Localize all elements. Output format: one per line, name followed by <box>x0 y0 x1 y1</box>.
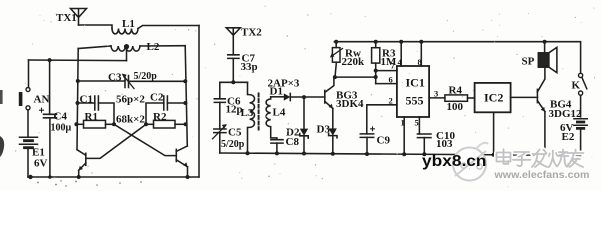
svg-text:3DG12: 3DG12 <box>549 108 583 120</box>
svg-text:L1: L1 <box>122 18 135 30</box>
pushbutton AN <box>19 60 30 110</box>
wire BG3 collector to R3 node <box>334 76 376 78</box>
node antenna coupling junction <box>231 80 235 84</box>
wire E1 to ground rail <box>27 148 29 177</box>
svg-text:C8: C8 <box>286 136 300 148</box>
wire C1 right down to R1 right node <box>98 103 114 124</box>
wire L2 tap down to supply wire <box>126 48 128 61</box>
node L3 bottom on rail <box>246 151 250 155</box>
scan artifact left edge upper <box>0 90 3 104</box>
wire IC1 pin7 <box>376 70 397 72</box>
diode D1 <box>271 93 325 100</box>
inductor L1 <box>112 29 138 34</box>
wire C1 left <box>78 102 95 104</box>
wire L2 right lead <box>140 45 185 47</box>
wire cross coupling R1node to BG2 base <box>114 124 176 155</box>
svg-text:C2: C2 <box>150 92 164 104</box>
wire R1 right <box>106 123 115 125</box>
ground rail receiver <box>220 153 581 155</box>
node pin1 on rail <box>402 152 406 156</box>
svg-text:3DK4: 3DK4 <box>336 98 364 110</box>
wire R2 right <box>175 123 186 125</box>
transistor BG2 <box>176 146 187 177</box>
svg-text:C4: C4 <box>54 111 68 123</box>
node pin4 on Vcc rail <box>399 40 403 44</box>
resistor R4 <box>445 95 468 101</box>
svg-text:68k×2: 68k×2 <box>116 114 145 126</box>
scan artifact left edge lower <box>0 136 4 157</box>
wire cross coupling R2node to BG1 base <box>86 124 146 158</box>
wire TX1 to L1 <box>79 25 113 29</box>
node BG3 collector / Rw junction <box>333 75 337 79</box>
node Rw top on Vcc rail <box>334 40 338 44</box>
node C10 bottom on rail <box>422 152 426 156</box>
inductor L2 <box>111 46 140 51</box>
wire C2 right <box>167 102 185 104</box>
node BG4 emitter on rail <box>543 153 547 157</box>
capacitor C9 <box>360 127 374 154</box>
node SP top on Vcc rail <box>543 40 547 44</box>
node L2 center tap <box>124 44 129 49</box>
svg-text:C3: C3 <box>108 72 122 84</box>
capacitor C4 <box>40 60 57 177</box>
node D2 bottom on rail <box>302 152 306 156</box>
speaker SP <box>538 42 557 73</box>
wire IC2 ground <box>493 112 495 154</box>
node BG1 emitter on rail <box>77 175 81 179</box>
op-amp IC1 555 timer box <box>397 66 429 117</box>
node C9 bottom on rail <box>365 152 369 156</box>
antenna TX2 <box>226 28 240 55</box>
node C4 on ground rail <box>48 175 52 179</box>
svg-text:R1: R1 <box>85 111 98 123</box>
wire L1 to right vertical <box>138 26 199 29</box>
svg-text:3: 3 <box>434 89 438 99</box>
svg-text:5: 5 <box>415 118 419 128</box>
node C8 bottom on rail <box>275 151 279 155</box>
node R2 right <box>184 122 188 126</box>
wire R2 left <box>146 123 154 125</box>
op-amp IC2 box <box>475 83 511 112</box>
resistor R1 <box>84 120 106 128</box>
svg-text:K: K <box>572 80 581 92</box>
svg-text:D3: D3 <box>317 124 331 136</box>
svg-text:103: 103 <box>436 138 453 150</box>
inductor L4 <box>266 97 277 140</box>
antenna TX1 <box>71 9 87 26</box>
node R1 left <box>74 122 78 126</box>
node pin7 junction <box>374 69 378 73</box>
svg-text:TX2: TX2 <box>241 27 262 39</box>
node C2 right <box>183 101 187 105</box>
svg-text:E2: E2 <box>562 131 575 143</box>
wire R1 left <box>76 123 83 125</box>
svg-text:C9: C9 <box>377 135 391 147</box>
transformer core <box>258 94 260 130</box>
switch K <box>579 73 587 117</box>
svg-text:5/20p: 5/20p <box>221 139 245 150</box>
capacitor C2 <box>164 96 168 110</box>
diode D3 <box>329 108 337 153</box>
Vcc rail receiver <box>334 42 580 73</box>
svg-text:www.elecfans.com: www.elecfans.com <box>493 169 589 181</box>
node C1 left <box>76 101 80 105</box>
scan noise speckle <box>15 6 595 188</box>
wire R4 to IC2 <box>468 97 475 99</box>
wire AN to E1 <box>27 110 29 136</box>
svg-text:1: 1 <box>401 118 405 128</box>
svg-text:8: 8 <box>418 57 422 67</box>
wire IC1 pin5 to C10 <box>418 117 420 134</box>
svg-text:L2: L2 <box>147 41 160 53</box>
svg-text:C5: C5 <box>228 127 242 139</box>
node detector junction <box>302 95 306 99</box>
node R3 top on Vcc rail <box>374 40 378 44</box>
svg-text:2: 2 <box>389 96 393 106</box>
wire left vertical (L2 end to BG1 collector) <box>77 49 78 150</box>
wire supply from AN rail to L2 tap <box>29 59 127 62</box>
resistor R3 <box>372 42 380 84</box>
node supply junction to C4 <box>48 58 52 62</box>
svg-text:33p: 33p <box>241 61 258 73</box>
node pin8 on Vcc rail <box>419 40 423 44</box>
wire IC1 pin3 to R4 <box>429 97 445 99</box>
wire IC1 pin1 to ground <box>403 117 405 154</box>
capacitor C10 <box>417 134 431 154</box>
node IC2 ground on rail <box>492 153 496 157</box>
wire L2 left lead <box>78 46 111 49</box>
svg-text:220k: 220k <box>342 56 366 68</box>
capacitor C1 <box>95 96 99 110</box>
wire C2 left down to R2 left node <box>146 103 164 124</box>
wire IC1 pin2 <box>367 104 397 106</box>
node BG2 emitter on rail <box>186 175 190 179</box>
node rail left end <box>28 175 32 179</box>
wire pin2 down to C9 <box>366 105 368 134</box>
potentiometer Rw <box>330 42 343 77</box>
wire C3 right to right vertical <box>129 80 186 82</box>
svg-text:555: 555 <box>406 94 424 108</box>
node Rw horizontal junction <box>374 75 378 79</box>
wire right vertical (L2 end to BG2 collector) <box>185 46 187 146</box>
capacitor C8 <box>271 140 283 154</box>
capacitor C3 (trimmer) <box>122 74 134 89</box>
svg-text:R2: R2 <box>153 111 167 123</box>
diode D2 <box>300 97 308 153</box>
wire tank left down to C6 <box>219 82 221 99</box>
svg-text:R4: R4 <box>449 85 463 97</box>
ground rail transmitter <box>28 176 199 178</box>
inductor L3 <box>248 82 255 153</box>
svg-text:5/20p: 5/20p <box>134 71 158 82</box>
transistor BG1 <box>77 150 86 177</box>
node R2/C2 left junction <box>144 122 148 126</box>
svg-text:100: 100 <box>447 101 464 113</box>
svg-text:AN: AN <box>34 94 50 106</box>
node C3 right on vertical <box>183 79 187 83</box>
capacitor C5 (trimmer) <box>213 124 227 153</box>
wire tank top <box>220 81 248 83</box>
svg-text:L4: L4 <box>273 107 286 119</box>
svg-text:56p×2: 56p×2 <box>116 94 145 106</box>
svg-text:6V: 6V <box>34 158 48 170</box>
svg-text:TX1: TX1 <box>56 12 77 24</box>
node D3 bottom on rail <box>331 152 335 156</box>
svg-text:D1: D1 <box>270 86 283 98</box>
transistor BG4 <box>537 67 545 155</box>
wire right tall vertical to ground rail <box>198 26 200 178</box>
svg-text:C1: C1 <box>80 94 93 106</box>
svg-text:SP: SP <box>522 56 535 68</box>
battery E2 <box>574 119 587 156</box>
resistor R2 <box>154 120 176 128</box>
transistor BG3 <box>325 77 334 108</box>
node C3 left on vertical <box>76 79 80 83</box>
capacitor C7 <box>228 55 239 83</box>
node R1/C1 right junction <box>112 122 116 126</box>
wire IC1 pin4 to Vcc <box>400 42 402 66</box>
svg-text:IC1: IC1 <box>406 76 425 90</box>
capacitor C6 <box>214 99 225 129</box>
svg-text:L3: L3 <box>241 107 254 119</box>
battery E1 <box>20 137 38 148</box>
scan specks below rail <box>37 180 142 187</box>
svg-text:6: 6 <box>389 75 393 85</box>
wire IC1 pin8 to Vcc <box>420 42 422 66</box>
svg-text:IC2: IC2 <box>484 91 503 105</box>
watermark CJK text dianzifashaoyou <box>497 149 584 167</box>
wire IC2 output to BG4 base <box>511 96 538 98</box>
wire C3 left to left vertical <box>78 80 125 82</box>
svg-text:100μ: 100μ <box>51 123 72 134</box>
svg-text:ybx8.cn: ybx8.cn <box>422 153 487 170</box>
watermark CJK text white underlay <box>497 149 584 167</box>
wire IC1 pin6 <box>376 83 397 85</box>
watermark logo circle <box>453 143 488 181</box>
